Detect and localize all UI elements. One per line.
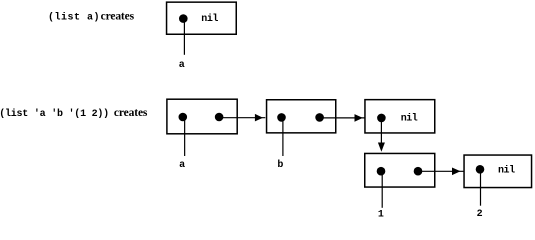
svg-text:nil: nil <box>498 165 515 177</box>
svg-text:b: b <box>277 159 283 171</box>
svg-text:2: 2 <box>477 209 483 217</box>
svg-text:nil: nil <box>201 13 218 25</box>
svg-text:creates: creates <box>101 11 135 23</box>
svg-text:creates: creates <box>114 107 148 119</box>
svg-text:1: 1 <box>378 210 384 217</box>
svg-text:a: a <box>179 60 185 71</box>
svg-text:nil: nil <box>401 113 418 125</box>
svg-text:(list 'a 'b '(1 2)): (list 'a 'b '(1 2)) <box>0 108 109 120</box>
svg-text:a: a <box>179 160 185 171</box>
svg-text:(list a): (list a) <box>48 12 100 24</box>
